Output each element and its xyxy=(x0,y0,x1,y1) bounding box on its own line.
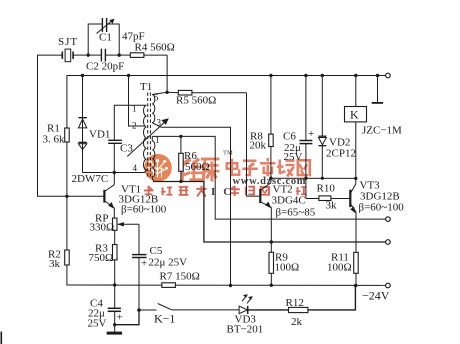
node VT2 emitter on output2 xyxy=(270,240,273,243)
svg-text:SJT: SJT xyxy=(58,36,78,48)
svg-text:560Ω: 560Ω xyxy=(185,161,210,173)
wire R12 up to -24V rail xyxy=(308,286,356,310)
node R9 bottom xyxy=(270,284,273,287)
resistor R5 560 ohm xyxy=(167,90,246,95)
svg-text:−24V: −24V xyxy=(362,289,390,303)
wire T1 pin1 to C3 xyxy=(114,105,146,140)
svg-text:TM: TM xyxy=(223,150,233,157)
node base-R1R2 junction xyxy=(65,195,68,198)
resistor R2 3k xyxy=(65,196,115,285)
svg-text:VD1: VD1 xyxy=(89,129,110,141)
svg-text:T1: T1 xyxy=(140,81,152,93)
wire T1 pin2 from bus xyxy=(129,76,146,127)
switch K-1 xyxy=(139,304,239,311)
svg-text:330Ω: 330Ω xyxy=(90,222,115,234)
svg-text:3: 3 xyxy=(157,118,162,128)
transformer T1 right winding upper pins 5-3 xyxy=(152,92,167,127)
svg-text:+: + xyxy=(117,312,123,324)
transformer T1 left winding pins 1-2-4 xyxy=(144,105,147,172)
capacitor C3 xyxy=(108,140,122,172)
wire R5 to VT2 base xyxy=(247,93,260,196)
node tap3 rail on -24V xyxy=(229,284,232,287)
svg-text:4: 4 xyxy=(133,163,138,173)
node bus-C6 xyxy=(304,74,307,77)
svg-text:2: 2 xyxy=(132,121,137,131)
svg-text:C3: C3 xyxy=(120,143,133,155)
svg-text:+: + xyxy=(141,258,147,270)
node collector-VD2 xyxy=(321,177,324,180)
svg-text:5: 5 xyxy=(154,93,159,103)
wire T1 pin1out row to output 1 xyxy=(152,136,385,219)
transformer T1 core xyxy=(148,93,151,178)
svg-text:K: K xyxy=(350,108,359,122)
wire -24V rail xyxy=(67,284,386,286)
watermark red slogan row xyxy=(144,186,207,197)
resistor R9 100 ohm xyxy=(269,252,274,285)
wire top supply bus xyxy=(67,76,386,129)
svg-text:R5 560Ω: R5 560Ω xyxy=(176,95,216,107)
wire crystal left lead and left rail down to VT1 base xyxy=(38,55,105,196)
svg-text:β=65~85: β=65~85 xyxy=(276,207,316,219)
svg-text:3k: 3k xyxy=(326,200,338,212)
relay K JZC-1M xyxy=(345,76,367,184)
resistor R8 20k xyxy=(269,76,274,183)
node collector-C6R10 xyxy=(304,177,307,180)
svg-text:+: + xyxy=(308,128,314,140)
wire C5 bottom to ground xyxy=(115,310,139,325)
watermark char wei xyxy=(181,158,205,182)
capacitor C6 22u 25V xyxy=(300,76,313,199)
node bus-VD2 xyxy=(321,74,324,77)
node R11-R12 on -24V rail xyxy=(354,284,358,288)
svg-text:2k: 2k xyxy=(291,316,303,328)
node bus-R8 xyxy=(269,74,272,77)
capacitor C1 (variable 47pF) xyxy=(97,18,115,34)
svg-text:BT−201: BT−201 xyxy=(227,324,264,336)
transistor VT2 3DG4C xyxy=(260,183,272,253)
svg-text:R12: R12 xyxy=(286,297,304,309)
diode VD2 2CP12 xyxy=(318,76,326,179)
node C3-VT1 collector junction xyxy=(113,171,116,174)
node bus-contact xyxy=(376,74,379,77)
wire C1 loop xyxy=(88,24,102,55)
svg-text:C2 20pF: C2 20pF xyxy=(86,61,124,73)
svg-text:C5: C5 xyxy=(150,245,163,257)
capacitor C2 20pF xyxy=(88,49,119,62)
svg-text:750Ω: 750Ω xyxy=(89,252,114,264)
resistor R12 2k xyxy=(289,307,308,312)
node bus-T1pin2 xyxy=(127,74,130,77)
node T1 pin5 / R5 junction xyxy=(165,91,168,94)
node crystal-C2 junction xyxy=(87,53,90,56)
watermark char wang xyxy=(297,159,312,176)
wire LED to R12 xyxy=(248,309,289,311)
terminal top right xyxy=(386,73,391,78)
node R6 bottom xyxy=(179,180,182,183)
ground xyxy=(107,332,122,335)
svg-text:1: 1 xyxy=(132,104,137,114)
node R3-C4 junction xyxy=(113,283,116,286)
svg-text:22μ 25V: 22μ 25V xyxy=(149,257,188,269)
node K-1 junction xyxy=(137,308,141,312)
transformer T1 right winding lower xyxy=(152,136,155,181)
svg-text:3k: 3k xyxy=(49,258,61,270)
svg-text:C6: C6 xyxy=(283,131,296,143)
node R6 top xyxy=(179,135,182,138)
wire R4 down to T1 pin5 node xyxy=(166,55,168,92)
resistor R10 3k xyxy=(306,196,350,201)
relay contact stub xyxy=(372,76,383,103)
diode VD1 dual zener 2DW7C xyxy=(78,76,86,173)
svg-text:R4 560Ω: R4 560Ω xyxy=(135,42,175,54)
watermark char ku xyxy=(201,158,220,182)
terminal output1 xyxy=(386,217,391,222)
wire R1 to base line xyxy=(66,142,68,196)
node bus-K xyxy=(354,74,357,77)
resistor R7 150 ohm xyxy=(162,283,176,288)
terminal -24V xyxy=(386,283,391,288)
svg-text:2CP12: 2CP12 xyxy=(326,148,356,160)
svg-text:β=60~100: β=60~100 xyxy=(121,204,167,216)
svg-text:25V: 25V xyxy=(284,151,303,163)
resistor R1 3.6k xyxy=(65,128,70,142)
watermark logo circle xyxy=(144,154,172,182)
svg-text:3DG4C: 3DG4C xyxy=(272,195,306,207)
svg-text:20k: 20k xyxy=(250,140,267,152)
wire T1 bottom to output 2 xyxy=(154,182,386,243)
svg-text:100Ω: 100Ω xyxy=(275,262,300,274)
watermark char chang xyxy=(277,160,295,178)
node C2-R4 junction xyxy=(118,53,121,56)
svg-text:25V: 25V xyxy=(88,318,107,330)
resistor R6 560 ohm xyxy=(179,136,184,181)
transistor VT1 3DG12B xyxy=(104,173,115,219)
tuning arrow through T1 xyxy=(127,118,169,156)
potentiometer RP 330 ohm xyxy=(113,218,140,254)
LED VD3 BT-201 xyxy=(239,294,253,314)
svg-text:β=60~100: β=60~100 xyxy=(359,202,405,214)
edge artifact bottom left xyxy=(0,332,2,344)
crystal SJT xyxy=(62,49,88,62)
svg-text:1: 1 xyxy=(155,135,160,145)
terminal output2 xyxy=(386,240,391,245)
svg-text:100Ω: 100Ω xyxy=(327,262,352,274)
wire collector rail VT2-VT3 xyxy=(271,177,356,179)
svg-text:R10: R10 xyxy=(317,183,336,195)
watermark char dian xyxy=(226,159,241,177)
wire VD1 bottom to VT1 collector / T1 pin4 xyxy=(83,172,145,174)
node bus-VD1 xyxy=(81,74,84,77)
wire tap3 to right column xyxy=(161,127,230,285)
transistor VT3 3DG12B xyxy=(350,184,358,252)
node collector-R8 xyxy=(269,177,272,180)
node collector-K-VT3 xyxy=(354,177,357,180)
svg-text:C1: C1 xyxy=(99,32,112,44)
watermark char zi xyxy=(242,160,257,177)
node C4-C5 ground junction xyxy=(113,323,116,326)
resistor R4 560 ohm xyxy=(119,53,167,58)
capacitor C4 22u 25V xyxy=(108,285,121,333)
resistor R3 750 ohm xyxy=(113,230,118,285)
capacitor C5 22u 25V xyxy=(132,255,146,310)
resistor R11 100 ohm xyxy=(354,252,359,285)
svg-text:K−1: K−1 xyxy=(154,312,175,326)
watermark char shi xyxy=(260,158,276,176)
svg-text:3. 6k: 3. 6k xyxy=(43,134,66,146)
svg-text:2DW7C: 2DW7C xyxy=(72,173,109,185)
svg-text:R7 150Ω: R7 150Ω xyxy=(160,271,200,283)
svg-text:JZC−1M: JZC−1M xyxy=(362,125,402,137)
